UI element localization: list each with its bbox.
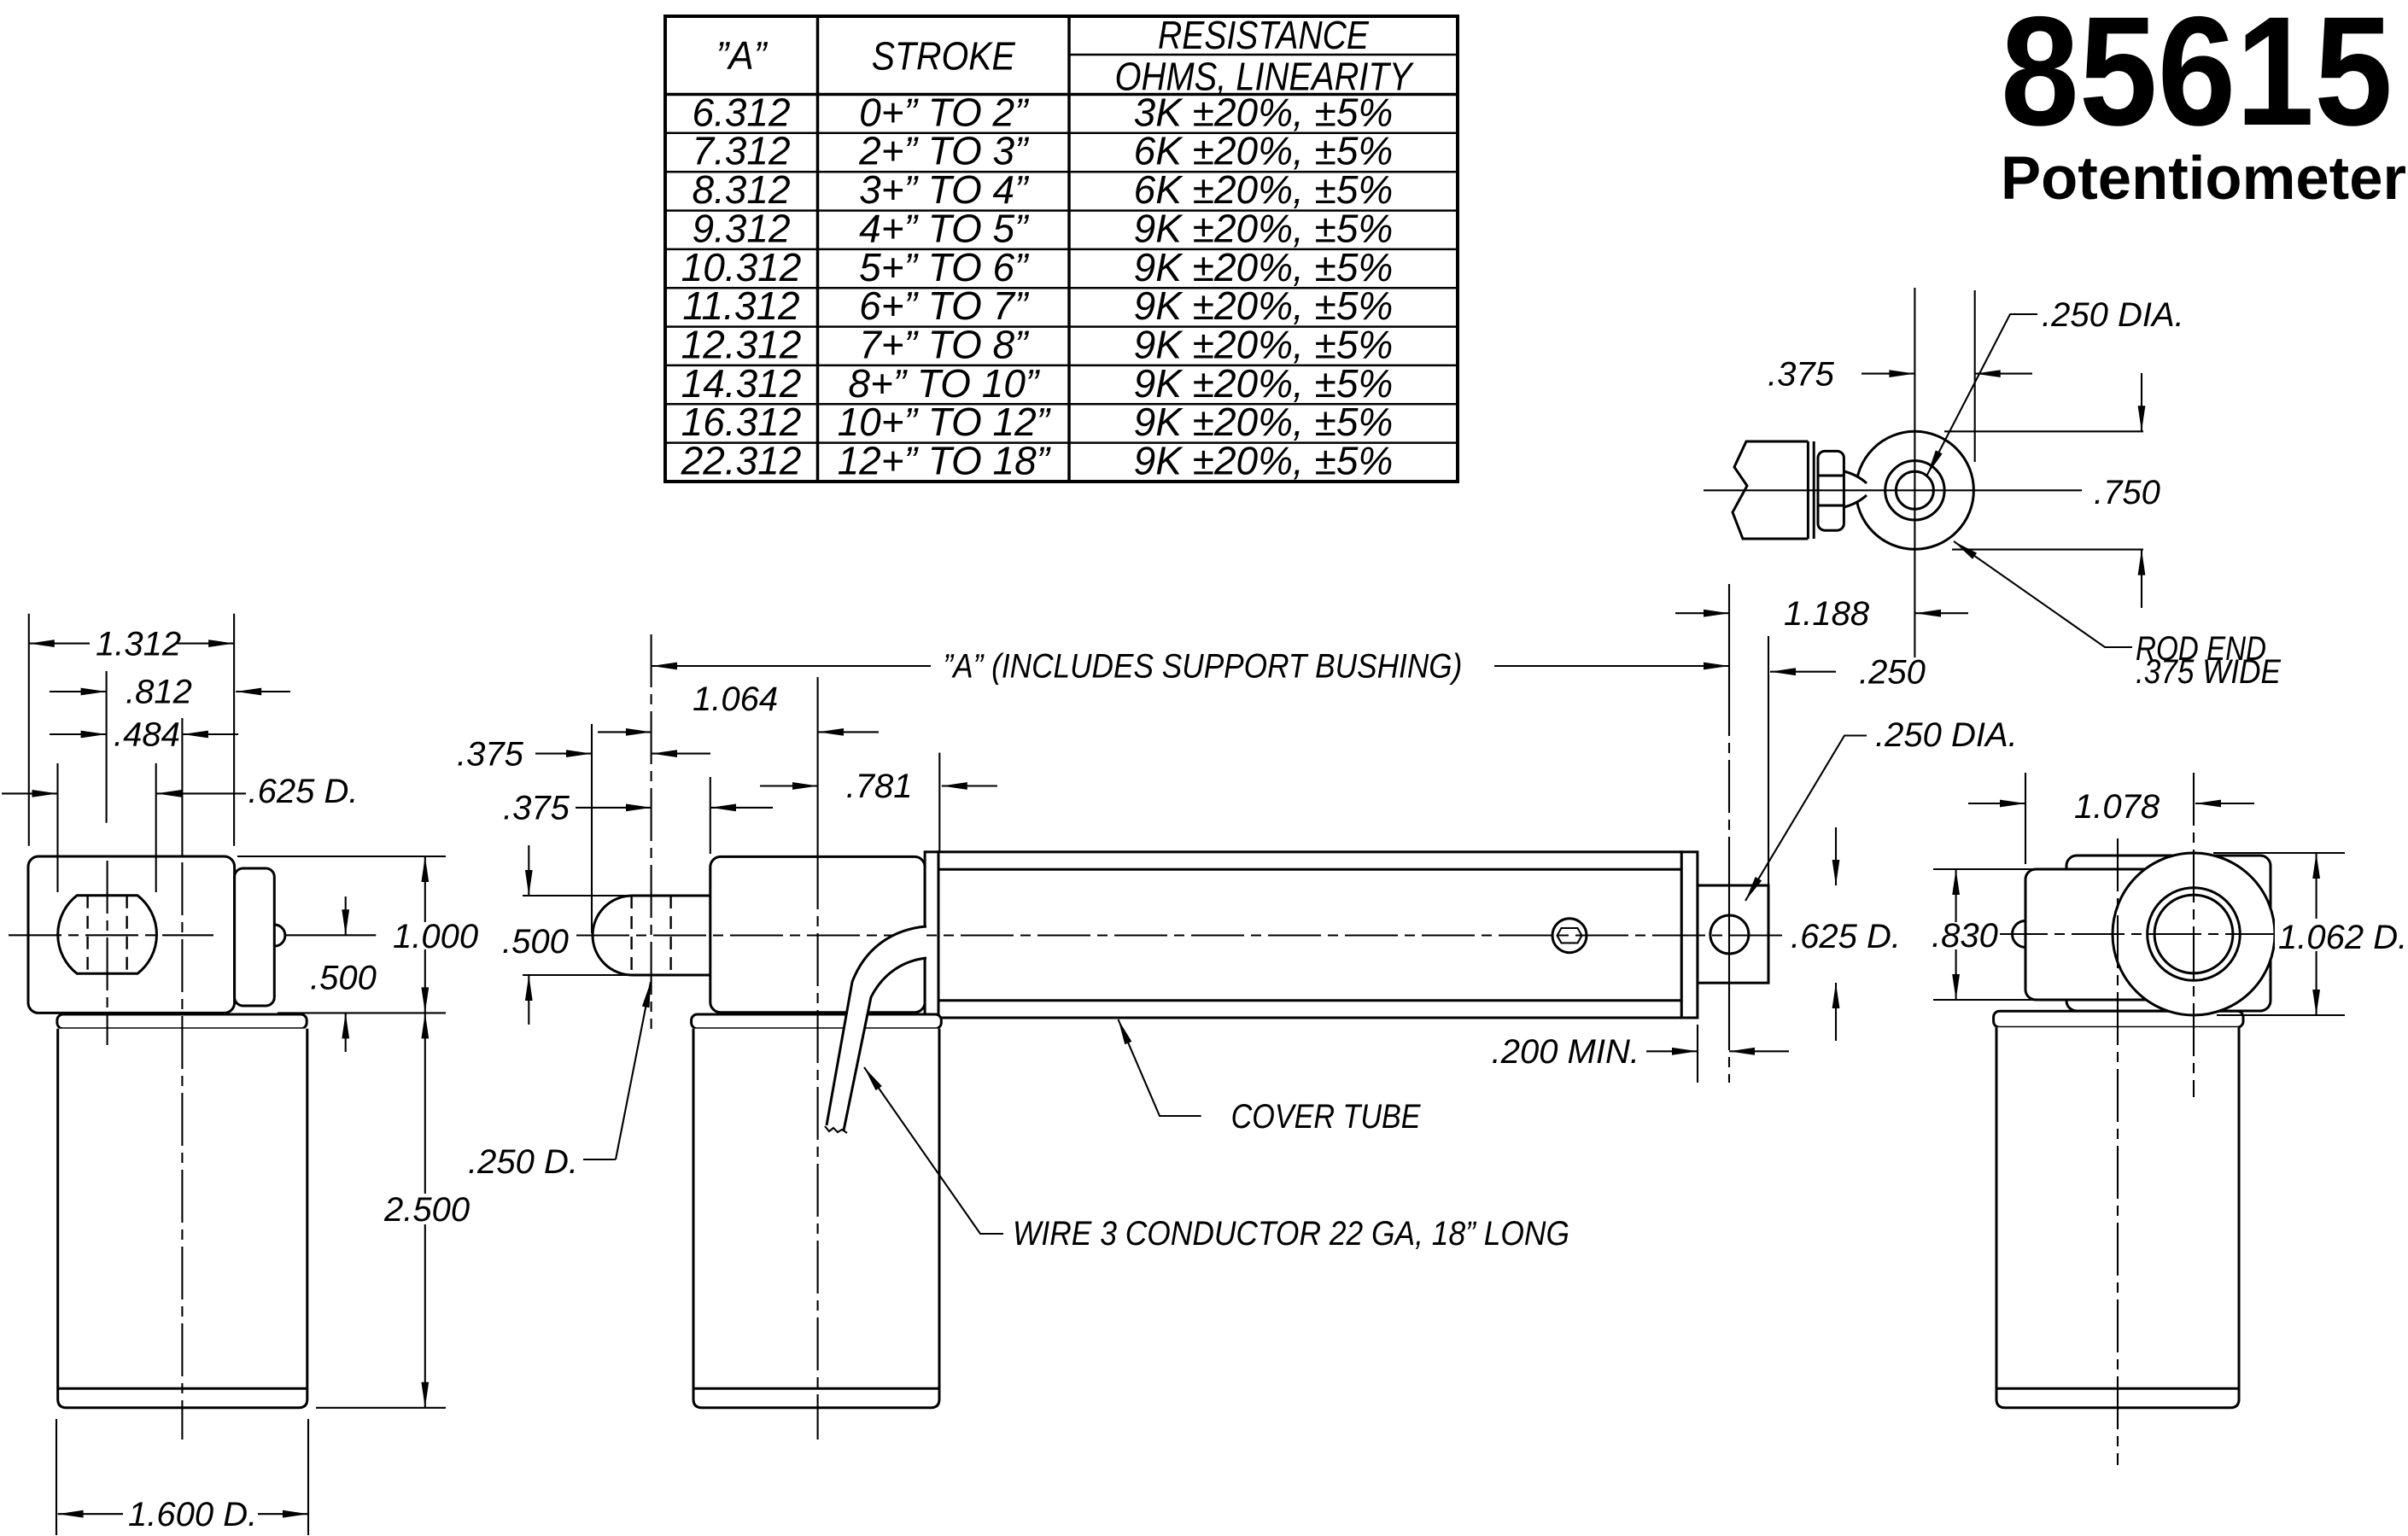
dim 1.062 D. — [2316, 853, 2317, 1015]
table: A / STROKE / RESISTANCE specification table — [665, 13, 1458, 483]
view2 hidden hole lines — [630, 896, 632, 975]
view3: rod end neck — [1844, 471, 1867, 507]
svg-text:.750: .750 — [2094, 474, 2160, 511]
svg-text:12.312: 12.312 — [681, 322, 802, 366]
svg-text:6.312: 6.312 — [692, 90, 790, 134]
view2 centerlines — [651, 634, 652, 1029]
dim .200 MIN. — [1646, 1050, 1698, 1052]
dim .500 view2 — [528, 845, 529, 896]
svg-text:1.312: 1.312 — [96, 626, 181, 663]
svg-text:.812: .812 — [126, 674, 192, 711]
view4: motor shaft bump — [2013, 921, 2026, 948]
view2: cover tube — [938, 852, 1681, 1018]
dim .830 — [1955, 869, 1957, 1000]
svg-text:9K ±20%, ±5%: 9K ±20%, ±5% — [1134, 283, 1394, 328]
view4: gearbox housing — [2025, 869, 2186, 1000]
dim 1.600 D. — [58, 1513, 308, 1515]
view2: extension rod with round end — [593, 896, 710, 975]
view2: motor flange cap — [692, 1014, 942, 1029]
svg-text:.625 D.: .625 D. — [1791, 918, 1901, 955]
svg-text:RESISTANCE: RESISTANCE — [1158, 13, 1370, 57]
view1 extension lines — [28, 614, 30, 846]
svg-text:3+” TO 4”: 3+” TO 4” — [859, 167, 1030, 212]
dim .484 — [50, 733, 107, 735]
svg-text:3K ±20%, ±5%: 3K ±20%, ±5% — [1134, 90, 1394, 134]
leader .250 DIA. (view3) — [1927, 314, 2037, 475]
svg-text:.830: .830 — [1932, 917, 1998, 955]
svg-text:.484: .484 — [114, 716, 180, 754]
view2: wire 3 conductor exiting gearbox — [827, 926, 926, 1130]
dim 1.064 — [598, 731, 652, 733]
dim A includes support bushing — [652, 665, 931, 667]
dim 2.500 — [424, 1013, 426, 1407]
dim .500 view1 — [345, 896, 347, 935]
view2: support bushing — [1698, 885, 1768, 983]
svg-text:.500: .500 — [502, 923, 569, 961]
svg-text:10.312: 10.312 — [681, 245, 802, 289]
svg-text:.500: .500 — [310, 959, 377, 996]
svg-text:.375: .375 — [1768, 355, 1835, 393]
svg-text:14.312: 14.312 — [681, 361, 802, 406]
svg-text:11.312: 11.312 — [682, 283, 799, 328]
svg-text:1.062 D.: 1.062 D. — [2278, 919, 2407, 956]
view1: motor flange cap — [57, 1014, 307, 1029]
leader WIRE 3 CONDUCTOR — [864, 1067, 1003, 1234]
view1: clevis boss circle with flats — [58, 896, 157, 974]
view3: broken rod shank — [1733, 441, 1808, 539]
svg-text:12+” TO 18”: 12+” TO 18” — [838, 439, 1052, 483]
dim .625 D. (bushing) — [1835, 827, 1837, 885]
svg-text:STROKE: STROKE — [872, 34, 1016, 79]
svg-text:.375 WIDE: .375 WIDE — [2136, 653, 2282, 691]
svg-text:16.312: 16.312 — [681, 400, 802, 444]
svg-text:.200 MIN.: .200 MIN. — [1492, 1033, 1639, 1071]
view3: jam washer flange — [1807, 441, 1809, 539]
dim .750 — [2141, 373, 2142, 431]
view2: bushing pivot hole .250 dia — [1710, 915, 1749, 954]
svg-text:1.600 D.: 1.600 D. — [128, 1496, 257, 1533]
view1: motor shaft bump — [274, 925, 285, 946]
svg-text:”A”: ”A” — [716, 33, 769, 78]
view3: jam nut — [1818, 451, 1844, 530]
svg-text:8.312: 8.312 — [692, 167, 790, 212]
view4: motor flange cap — [1994, 1011, 2243, 1027]
view1: motor bottom cap line — [58, 1387, 307, 1390]
dim .812 — [50, 691, 107, 692]
svg-text:6K ±20%, ±5%: 6K ±20%, ±5% — [1134, 129, 1394, 173]
view3 extension lines — [1974, 290, 1976, 462]
view3 centerlines — [1914, 288, 1915, 657]
svg-text:85615: 85615 — [2001, 0, 2393, 158]
dim 1.000 — [424, 856, 426, 1013]
svg-text:2.500: 2.500 — [383, 1191, 470, 1229]
dim .250 (right of A) — [1770, 671, 1836, 673]
svg-text:1.078: 1.078 — [2074, 788, 2160, 826]
svg-text:6K ±20%, ±5%: 6K ±20%, ±5% — [1134, 167, 1394, 212]
svg-text:1.188: 1.188 — [1784, 595, 1870, 633]
svg-text:0+” TO 2”: 0+” TO 2” — [859, 90, 1030, 134]
view2: gearbox block — [710, 856, 925, 1012]
svg-text:6+” TO 7”: 6+” TO 7” — [859, 283, 1030, 328]
svg-text:.781: .781 — [846, 768, 913, 805]
dim .781 — [760, 785, 818, 786]
svg-text:7.312: 7.312 — [692, 129, 790, 173]
svg-text:8+” TO 10”: 8+” TO 10” — [848, 361, 1041, 406]
view2: set screw with hex socket on tube — [1552, 919, 1587, 953]
view4 extension lines — [2025, 773, 2026, 864]
view1 hidden hole lines — [86, 896, 88, 974]
svg-text:10+” TO 12”: 10+” TO 12” — [838, 400, 1052, 444]
dim .375 upper (view2) — [535, 753, 592, 755]
leader COVER TUBE — [1119, 1019, 1201, 1116]
view4: clevis boss 1.062 dia — [2113, 853, 2275, 1015]
view1: clevis block body (left side view) — [28, 856, 235, 1013]
view4: square mounting plate — [2066, 856, 2271, 1011]
view2 extension lines — [817, 677, 819, 856]
svg-text:.250 D.: .250 D. — [468, 1143, 578, 1181]
dim 1.312 — [29, 643, 234, 645]
dim 1.078 — [1968, 803, 2025, 804]
svg-text:5+” TO 6”: 5+” TO 6” — [859, 245, 1030, 289]
leader ROD END .375 WIDE — [1954, 541, 2132, 647]
svg-text:7+” TO 8”: 7+” TO 8” — [859, 322, 1030, 366]
leader .250 DIA. (bushing hole) — [1745, 736, 1867, 902]
view1: square mounting plate (edge view) — [235, 868, 275, 1006]
view1: motor body cylinder — [58, 1029, 307, 1408]
svg-text:.375: .375 — [457, 735, 524, 773]
svg-text:”A” (INCLUDES SUPPORT BUSHI: ”A” (INCLUDES SUPPORT BUSHING) — [943, 648, 1462, 686]
svg-text:4+” TO 5”: 4+” TO 5” — [859, 206, 1030, 250]
dim 1.188 — [1675, 612, 1729, 614]
view4: motor body cylinder — [1996, 1027, 2239, 1408]
view2: cover tube end cap — [1681, 852, 1698, 1018]
view3: rod end eye outer — [1856, 431, 1973, 549]
svg-text:.375: .375 — [503, 790, 570, 827]
leader .250 D. (rod dia) — [583, 1159, 616, 1160]
svg-text:.250 DIA.: .250 DIA. — [1875, 716, 2018, 754]
dim .375 lower (view2) — [576, 807, 652, 809]
svg-text:.250: .250 — [1859, 653, 1926, 691]
view1 centerlines — [107, 861, 108, 1045]
svg-text:9K ±20%, ±5%: 9K ±20%, ±5% — [1134, 245, 1394, 289]
svg-text:Potentiometer: Potentiometer — [2001, 145, 2406, 213]
svg-text:9K ±20%, ±5%: 9K ±20%, ±5% — [1134, 322, 1394, 366]
view2: motor body cylinder — [693, 1029, 939, 1408]
view3: rod end ball ring — [1885, 461, 1944, 520]
dim .625 D. — [2, 792, 58, 794]
svg-text:9K ±20%, ±5%: 9K ±20%, ±5% — [1134, 361, 1394, 406]
svg-text:9K ±20%, ±5%: 9K ±20%, ±5% — [1134, 206, 1394, 250]
dim .375 (view3) — [1862, 373, 1914, 375]
view3: rod end bore .250 dia — [1896, 471, 1933, 509]
svg-text:9K ±20%, ±5%: 9K ±20%, ±5% — [1134, 439, 1394, 483]
svg-text:1.000: 1.000 — [393, 918, 478, 955]
svg-text:2+” TO 3”: 2+” TO 3” — [858, 129, 1030, 173]
svg-text:22.312: 22.312 — [681, 439, 802, 483]
svg-text:WIRE 3 CONDUCTOR 22 GA, 1: WIRE 3 CONDUCTOR 22 GA, 18” LONG — [1013, 1215, 1569, 1253]
svg-text:.250 DIA.: .250 DIA. — [2042, 296, 2184, 334]
view2: cover tube left collar — [925, 852, 938, 1018]
svg-text:9.312: 9.312 — [692, 206, 790, 250]
svg-text:9K ±20%, ±5%: 9K ±20%, ±5% — [1134, 400, 1394, 444]
svg-text:1.064: 1.064 — [693, 680, 778, 718]
svg-text:.625 D.: .625 D. — [248, 773, 359, 810]
view4 centerlines — [2117, 838, 2119, 1465]
svg-text:COVER TUBE: COVER TUBE — [1231, 1098, 1422, 1136]
